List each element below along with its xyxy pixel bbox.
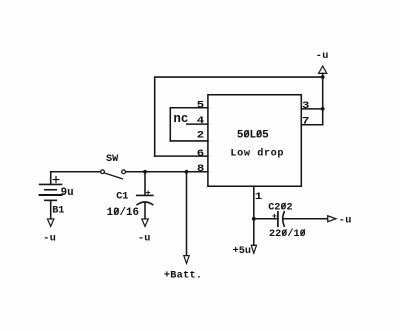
wire C1 to ground arrow (144, 202, 146, 219)
svg-text:Low drop: Low drop (230, 147, 284, 159)
svg-text:2: 2 (197, 129, 204, 141)
capacitor C1 polarity + mark (147, 191, 150, 194)
wire switch to IC pin 8 (126, 171, 208, 173)
slash of zero in 10/16 (114, 208, 118, 214)
capacitor C202 polarity + mark (273, 214, 276, 217)
arrow +Batt (184, 256, 189, 264)
svg-text:8: 8 (197, 163, 204, 175)
capacitor C202 (278, 212, 284, 227)
arrow -v (right) (328, 216, 336, 222)
svg-text:3: 3 (302, 100, 309, 112)
svg-text:10/16: 10/16 (107, 207, 139, 219)
svg-text:6: 6 (197, 148, 204, 160)
svg-text:5: 5 (197, 99, 204, 111)
ground arrow -v (C1) (142, 219, 148, 226)
ground arrow -v (battery) (48, 219, 54, 226)
IC U1 50L05 box (208, 95, 301, 187)
svg-text:-u: -u (316, 51, 329, 62)
pin 7 wire (301, 124, 322, 126)
pin 6 wire (155, 155, 208, 157)
svg-text:SW: SW (106, 154, 119, 165)
junction dot top -v rail (321, 75, 325, 79)
wire pin1 node to capacitor C202 (254, 218, 278, 220)
svg-text:+Batt.: +Batt. (164, 271, 202, 282)
pin 4 wire (nc) (187, 123, 208, 125)
svg-text:-u: -u (339, 215, 352, 226)
pin 3 wire (301, 108, 322, 110)
slash of zero in C202 (282, 203, 286, 209)
pin 2 wire (170, 140, 208, 142)
pin 5 wire (170, 107, 208, 109)
nc bracket joining pins 5 and 2 (169, 108, 171, 141)
wire +5v branch (253, 219, 255, 246)
pin 1 wire (253, 186, 255, 219)
junction dot pin 3 (321, 107, 325, 111)
battery B1 polarity + mark (53, 177, 59, 183)
svg-text:7: 7 (302, 116, 309, 128)
svg-text:B1: B1 (52, 205, 64, 216)
wire C202 to -v arrow (284, 218, 328, 220)
slashes of zeros in 220/10 (282, 229, 286, 235)
svg-text:9u: 9u (61, 187, 74, 199)
wire +Batt branch (186, 172, 188, 256)
wire battery negative to ground arrow (50, 200, 52, 219)
battery B1 (40, 184, 62, 200)
svg-text:+5u: +5u (233, 246, 251, 257)
svg-text:nc: nc (173, 112, 188, 126)
wire battery positive to switch (51, 172, 101, 185)
junction dot +Batt tap (185, 170, 189, 174)
arrow -v (top) (319, 66, 327, 73)
svg-text:4: 4 (197, 115, 204, 127)
svg-text:-u: -u (43, 234, 56, 245)
svg-text:1: 1 (255, 191, 262, 203)
slashes of zeros in 50L05 (244, 130, 248, 137)
svg-text:50L05: 50L05 (237, 130, 269, 142)
svg-text:220/10: 220/10 (269, 228, 306, 240)
junction dot C1 tap (143, 170, 147, 174)
wire -v vertical rail (322, 73, 324, 124)
arrow +5v (251, 245, 256, 253)
switch SW (101, 170, 126, 179)
wire pin 6 loop to -v rail (155, 77, 323, 156)
wire rail to capacitor C1 (144, 172, 146, 195)
svg-text:C202: C202 (268, 203, 292, 214)
svg-text:C1: C1 (116, 191, 128, 202)
capacitor C1 (137, 195, 153, 204)
svg-text:-u: -u (138, 233, 151, 244)
junction dot pin 1 / C202 (252, 217, 256, 221)
